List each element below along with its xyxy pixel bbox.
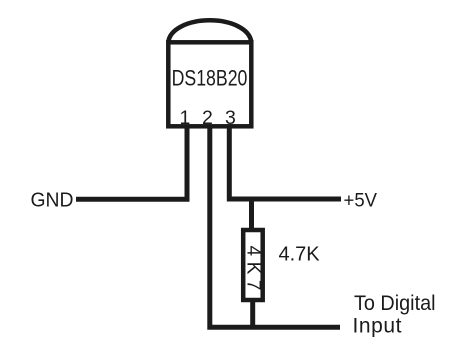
svg-text:To Digital: To Digital [354, 292, 436, 315]
svg-text:2: 2 [202, 107, 213, 129]
svg-text:+5V: +5V [344, 189, 378, 211]
wire: pin 2 down to bottom data line, right to digital input [210, 126, 340, 327]
wire: resistor bottom lead to data line [250, 300, 255, 327]
wire: pin 1 down and left to GND [76, 126, 187, 199]
svg-text:1: 1 [179, 107, 190, 129]
svg-text:Input: Input [353, 314, 402, 337]
sensor U1 DS18B20 TO-92 package body [168, 20, 251, 126]
wire: pin 3 down and right to +5V [229, 126, 341, 199]
svg-text:DS18B20: DS18B20 [172, 65, 248, 90]
resistor R1 body [243, 230, 263, 300]
svg-text:3: 3 [225, 107, 236, 129]
svg-text:4.7K: 4.7K [279, 243, 321, 265]
wire: resistor top stub from +5V line [249, 199, 254, 232]
svg-text:4K7: 4K7 [243, 246, 264, 291]
svg-text:GND: GND [31, 188, 74, 211]
